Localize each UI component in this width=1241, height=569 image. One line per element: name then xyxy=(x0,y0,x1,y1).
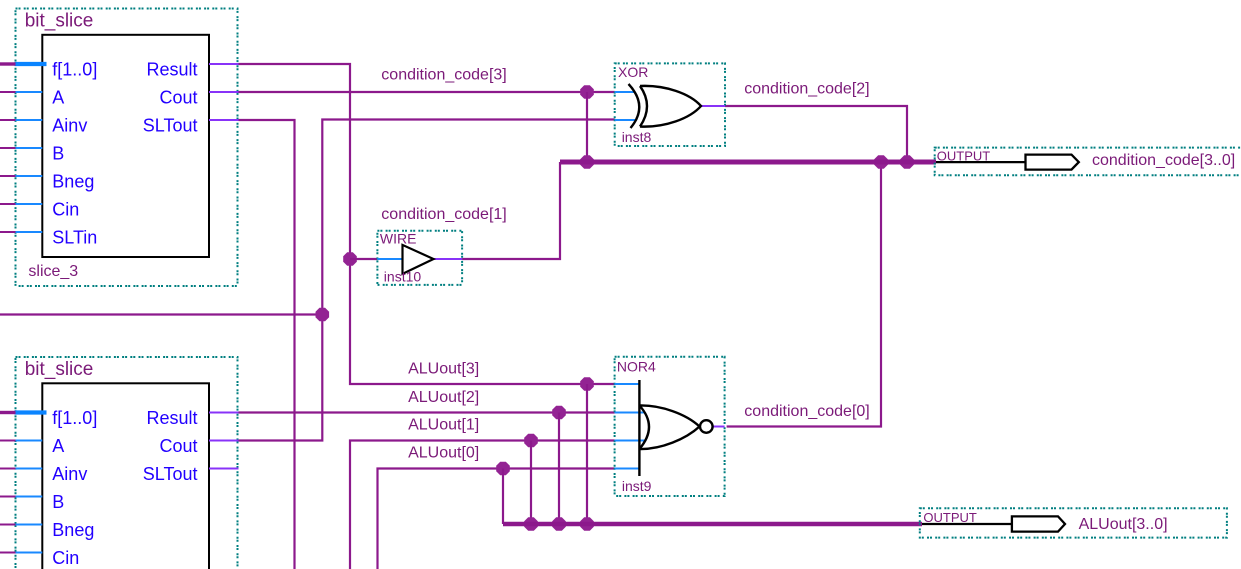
junction ALUout[1] on bus xyxy=(524,517,538,531)
svg-text:f[1..0]: f[1..0] xyxy=(52,408,97,428)
svg-text:SLTout: SLTout xyxy=(143,115,198,135)
svg-text:ALUout[1]: ALUout[1] xyxy=(408,417,479,434)
pin stub Ainv of slice_2 xyxy=(15,468,43,470)
NOR4 gate inst9 output stub xyxy=(713,426,725,428)
pin stub B of slice_3 xyxy=(15,147,43,149)
OUTPUT pin ALUout[3..0] selection box xyxy=(920,508,1227,537)
svg-text:Cout: Cout xyxy=(159,436,197,456)
svg-text:ALUout[2]: ALUout[2] xyxy=(408,389,479,406)
svg-text:OUTPUT: OUTPUT xyxy=(937,149,991,164)
wire drop ALUout[0] to ALUout bus (corner) xyxy=(502,469,504,525)
svg-text:inst9: inst9 xyxy=(622,478,652,494)
svg-text:Bneg: Bneg xyxy=(52,520,94,540)
svg-text:condition_code[0]: condition_code[0] xyxy=(744,403,869,420)
OUTPUT pin condition_code[3..0] selection box xyxy=(935,148,1241,176)
XOR gate inst8 body xyxy=(629,84,640,128)
pin stub Cout of slice_3 xyxy=(209,91,239,93)
wire input to slice_2 row 3 from left edge xyxy=(0,496,16,498)
pin stub Cin of slice_2 xyxy=(15,552,43,554)
wire input to slice_3 row 3 from left edge xyxy=(0,147,16,149)
pin stub B of slice_2 xyxy=(15,496,43,498)
svg-text:A: A xyxy=(52,436,64,456)
wire ALUout[1] from bottom edge up column x=350 to NOR4 input 3 xyxy=(350,441,615,569)
junction condition_code[0] on bus xyxy=(874,155,888,169)
wire Cout(slice_2) up column x=322 to XOR input 2 xyxy=(239,120,615,441)
svg-text:bit_slice: bit_slice xyxy=(25,359,94,380)
svg-text:B: B xyxy=(52,143,64,163)
wire input to slice_3 row 4 from left edge xyxy=(0,175,16,177)
wire input to slice_3 row 6 from left edge xyxy=(0,231,16,233)
svg-text:condition_code[1]: condition_code[1] xyxy=(381,206,506,223)
bit_slice block slice_3 body xyxy=(42,35,209,257)
wire input to slice_2 row 4 from left edge xyxy=(0,524,16,526)
wire ALUout[0] from bottom edge up column x=377.5 to NOR4 input 4 xyxy=(378,469,615,569)
pin stub Cout of slice_2 xyxy=(209,440,239,442)
junction ALUout[3] to bus drop xyxy=(580,377,594,391)
svg-text:A: A xyxy=(52,87,64,107)
pin stub SLTout of slice_2 xyxy=(209,468,239,470)
NOR4 gate inst9 input stubs xyxy=(615,383,640,385)
wire input to slice_3 row 0 from left edge xyxy=(0,62,16,65)
NOR4 gate inst9 inversion bubble xyxy=(700,420,713,433)
svg-text:Cin: Cin xyxy=(52,548,79,568)
OUTPUT pin condition_code[3..0] symbol xyxy=(1026,155,1079,170)
wire drop ALUout[1] to ALUout bus xyxy=(530,441,532,525)
pin stub SLTin of slice_3 xyxy=(15,231,43,233)
wire input to slice_3 row 5 from left edge xyxy=(0,203,16,205)
wire SLTout(slice_3) down column x=294.5 to bottom edge xyxy=(239,120,295,569)
pin stub Bneg of slice_3 xyxy=(15,175,43,177)
bit_slice block slice_2 body xyxy=(42,383,209,569)
pin stub Ainv of slice_3 xyxy=(15,119,43,121)
wire input to slice_2 row 1 from left edge xyxy=(0,440,16,442)
junction ALUout[2] to bus drop xyxy=(552,406,566,420)
svg-text:Ainv: Ainv xyxy=(52,464,87,484)
pin stub Bneg of slice_2 xyxy=(15,524,43,526)
svg-text:Result: Result xyxy=(146,408,197,428)
junction Result/WIRE buffer input xyxy=(343,252,357,266)
svg-text:ALUout[3]: ALUout[3] xyxy=(408,361,479,378)
bus condition_code[3..0] xyxy=(560,160,936,165)
svg-text:Cin: Cin xyxy=(52,199,79,219)
wire input to slice_3 row 2 from left edge xyxy=(0,119,16,121)
svg-text:B: B xyxy=(52,492,64,512)
junction ALUout[1] to bus drop xyxy=(524,434,538,448)
wire Result(slice_3) net: right then down column x=350 xyxy=(239,64,588,384)
svg-text:condition_code[3]: condition_code[3] xyxy=(381,67,506,84)
wire net from left edge to junction at (322,314.5) xyxy=(0,313,322,315)
wire drop ALUout[2] to ALUout bus xyxy=(558,413,560,525)
XOR gate inst8 selection box xyxy=(615,63,725,146)
wire drop condition_code[3] to condition_code bus xyxy=(586,92,588,162)
wire condition_code[2] from XOR output down to bus xyxy=(725,106,907,162)
pin stub Result of slice_2 xyxy=(209,412,239,414)
svg-text:SLTin: SLTin xyxy=(52,227,97,247)
WIRE buffer inst10 selection box xyxy=(377,231,462,285)
pin stub SLTout of slice_3 xyxy=(209,119,239,121)
pin stub Result of slice_3 xyxy=(209,63,239,65)
junction ALUout[2] on bus xyxy=(552,517,566,531)
wire Result(slice_2) = ALUout[2] to NOR4 input 2 xyxy=(239,411,615,413)
XOR gate inst8 output stub xyxy=(701,105,725,107)
wire Cout(slice_3) = condition_code[3] to XOR input xyxy=(239,91,615,93)
svg-text:inst8: inst8 xyxy=(622,129,652,145)
svg-text:SLTout: SLTout xyxy=(143,464,198,484)
NOR4 gate inst9 selection box xyxy=(615,357,725,496)
wire condition_code[0] from NOR4 output up to bus xyxy=(727,162,881,427)
svg-text:Cout: Cout xyxy=(159,87,197,107)
svg-text:Bneg: Bneg xyxy=(52,171,94,191)
wire input to slice_2 row 2 from left edge xyxy=(0,468,16,470)
svg-text:XOR: XOR xyxy=(618,64,648,80)
bus ALUout[3..0] xyxy=(503,522,922,527)
junction condition_code[2] on bus xyxy=(900,155,914,169)
pin stub f[1..0] of slice_2 xyxy=(15,410,47,414)
junction ALUout[3] on bus xyxy=(580,517,594,531)
pin stub A of slice_2 xyxy=(15,440,43,442)
svg-text:ALUout[3..0]: ALUout[3..0] xyxy=(1079,516,1168,533)
wire drop ALUout[3] to ALUout bus xyxy=(586,384,588,524)
wire input to slice_2 row 5 from left edge xyxy=(0,552,16,554)
svg-text:Ainv: Ainv xyxy=(52,115,87,135)
svg-text:condition_code[3..0]: condition_code[3..0] xyxy=(1092,152,1235,169)
OUTPUT pin condition_code[3..0] lead xyxy=(936,161,1026,163)
junction ALUout[0] to bus drop xyxy=(496,462,510,476)
bit_slice block slice_3 selection box xyxy=(16,9,238,287)
WIRE buffer inst10 body xyxy=(403,245,434,274)
wire input to slice_2 row 0 from left edge xyxy=(0,411,16,414)
wire junction to WIRE buffer input xyxy=(350,258,377,260)
OUTPUT pin ALUout[3..0] lead xyxy=(922,523,1012,525)
NOR4 gate inst9 body xyxy=(638,380,640,476)
wire ALUout[3] into NOR4 input 1 xyxy=(587,383,615,385)
wire condition_code[1] from WIRE buffer output up to bus xyxy=(434,258,463,260)
svg-text:OUTPUT: OUTPUT xyxy=(923,510,977,525)
svg-text:condition_code[2]: condition_code[2] xyxy=(744,81,869,98)
svg-text:ALUout[0]: ALUout[0] xyxy=(408,445,479,462)
junction condition_code[3] to bus drop xyxy=(580,85,594,99)
svg-text:bit_slice: bit_slice xyxy=(25,10,94,31)
svg-text:inst10: inst10 xyxy=(384,269,422,285)
junction condition_code[3] on bus xyxy=(580,155,594,169)
WIRE buffer inst10 input stub xyxy=(377,258,402,260)
svg-text:f[1..0]: f[1..0] xyxy=(52,59,97,79)
svg-text:NOR4: NOR4 xyxy=(617,359,656,375)
junction left-edge net joins column x=322 xyxy=(316,308,330,322)
svg-text:WIRE: WIRE xyxy=(380,230,417,246)
bit_slice block slice_2 selection box xyxy=(16,357,238,569)
OUTPUT pin ALUout[3..0] symbol xyxy=(1012,516,1065,531)
svg-text:slice_3: slice_3 xyxy=(28,263,78,280)
svg-text:Result: Result xyxy=(146,59,197,79)
pin stub A of slice_3 xyxy=(15,91,43,93)
pin stub Cin of slice_3 xyxy=(15,203,43,205)
pin stub f[1..0] of slice_3 xyxy=(15,62,47,66)
XOR gate inst8 input stubs xyxy=(615,91,635,93)
wire input to slice_3 row 1 from left edge xyxy=(0,91,16,93)
